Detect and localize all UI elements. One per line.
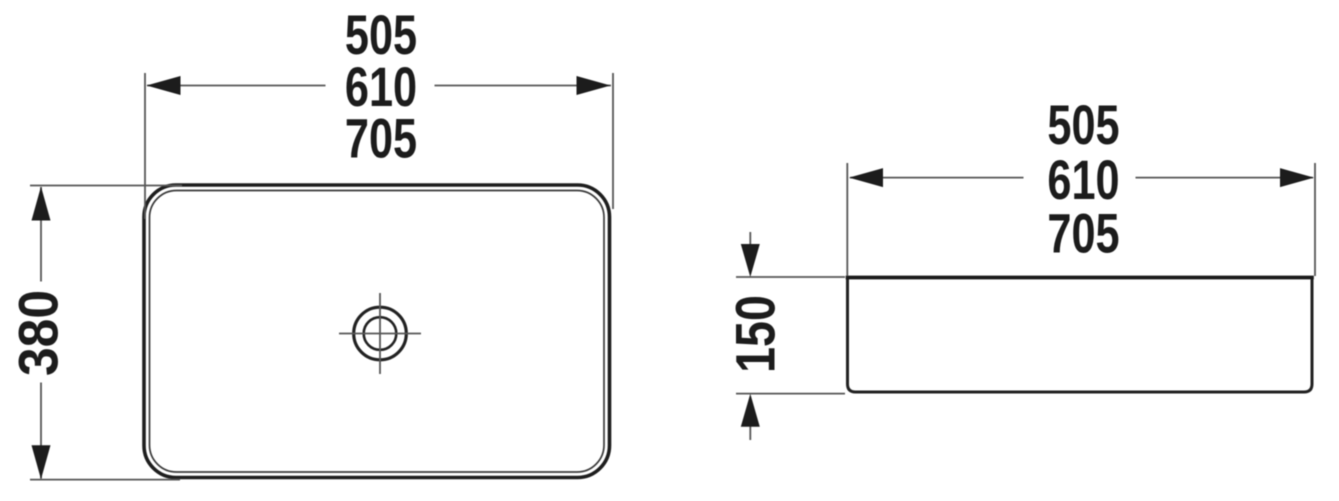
svg-text:705: 705 <box>345 107 417 169</box>
side view top edge (thick) <box>846 276 1314 280</box>
height dimension: extension line top <box>736 276 845 278</box>
depth dimension line lower segment <box>40 383 42 479</box>
width dimension line right segment <box>1136 177 1314 179</box>
width dimension arrow left <box>147 76 181 95</box>
width dimension line left segment <box>147 85 326 87</box>
drain crosshair vertical <box>379 293 381 374</box>
drain inner circle <box>364 317 397 350</box>
depth dimension arrow down <box>32 445 51 479</box>
width dimension: extension line left <box>846 163 848 276</box>
basin inner outline <box>150 191 605 473</box>
depth dimension: extension line bottom <box>30 479 180 481</box>
svg-text:505: 505 <box>1047 94 1119 156</box>
height dimension arrow down (above) <box>741 232 760 277</box>
height dimension: extension line bottom <box>736 393 845 395</box>
drain crosshair horizontal <box>339 333 421 335</box>
depth dimension line upper segment <box>40 187 42 282</box>
width dimension: extension line left <box>144 73 146 219</box>
width dimension line right segment <box>435 85 612 87</box>
svg-text:380: 380 <box>8 290 70 376</box>
drain outer circle <box>354 307 407 360</box>
width dimension arrow left <box>849 168 883 187</box>
width dimension arrow right <box>577 76 611 95</box>
svg-text:150: 150 <box>725 295 787 373</box>
side view body <box>848 278 1313 393</box>
depth dimension: extension line top <box>30 185 182 187</box>
height dimension arrow up (below) <box>741 394 760 440</box>
width dimension arrow right <box>1280 168 1314 187</box>
width dimension: extension line right <box>612 73 614 209</box>
width dimension line left segment <box>850 177 1024 179</box>
basin outer outline <box>144 185 610 478</box>
width dimension: extension line right <box>1314 163 1316 276</box>
svg-text:705: 705 <box>1047 202 1119 264</box>
depth dimension arrow up <box>32 187 51 221</box>
